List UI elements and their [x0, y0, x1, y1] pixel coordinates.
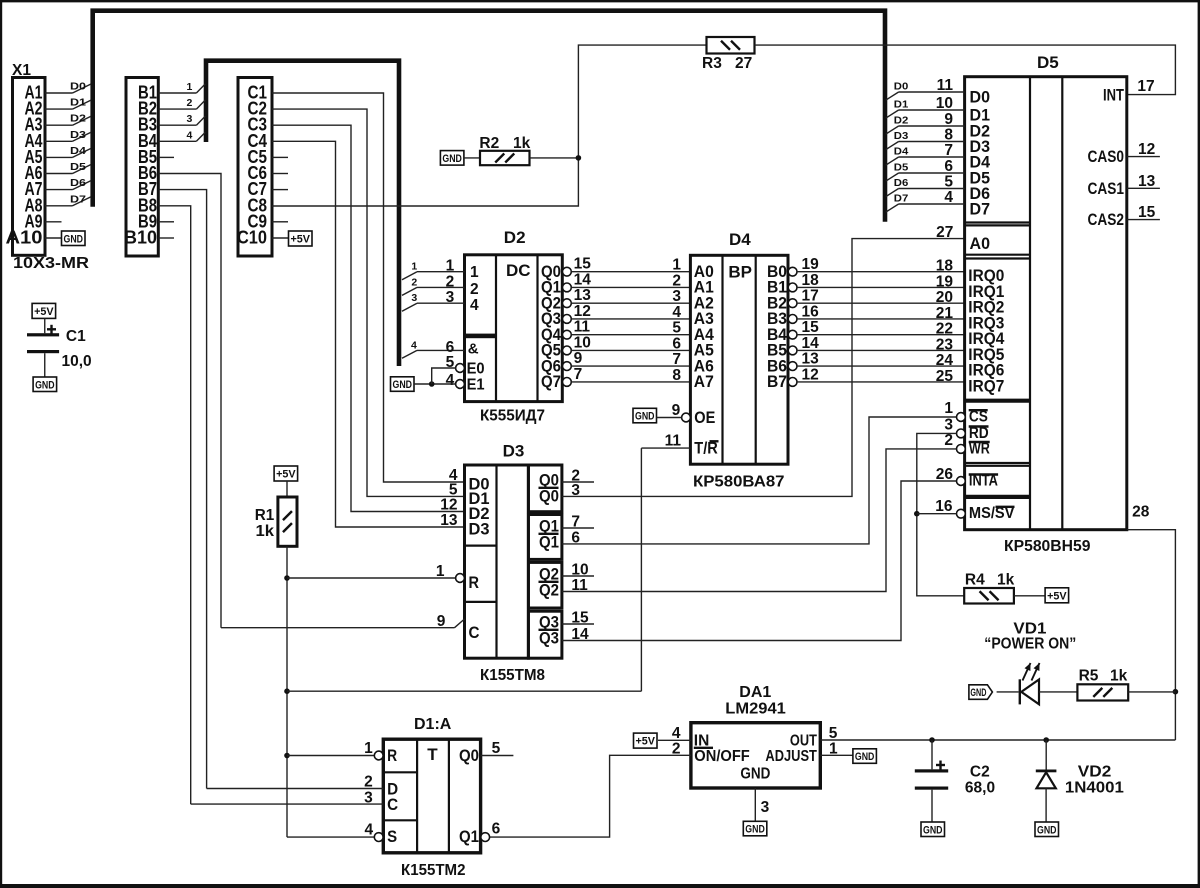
svg-text:INT: INT	[1103, 86, 1124, 104]
svg-text:13: 13	[802, 351, 820, 368]
svg-text:D3: D3	[894, 130, 909, 142]
svg-text:10,0: 10,0	[62, 353, 92, 370]
svg-text:22: 22	[936, 321, 953, 338]
svg-text:S: S	[387, 827, 397, 846]
svg-text:9: 9	[437, 613, 446, 630]
svg-text:+5V: +5V	[291, 234, 311, 246]
svg-text:8: 8	[672, 367, 681, 384]
svg-text:9: 9	[672, 402, 681, 419]
svg-text:DC: DC	[506, 261, 531, 280]
svg-text:D2: D2	[504, 228, 526, 247]
svg-text:D2: D2	[70, 113, 86, 125]
svg-text:C2: C2	[970, 764, 990, 781]
svg-text:1: 1	[470, 264, 479, 281]
svg-text:2: 2	[187, 97, 193, 109]
svg-text:17: 17	[802, 288, 819, 305]
svg-text:18: 18	[936, 258, 954, 275]
svg-text:R: R	[387, 746, 397, 765]
svg-text:C: C	[469, 623, 480, 642]
svg-text:D1: D1	[70, 97, 86, 109]
svg-text:T: T	[427, 745, 438, 764]
svg-text:23: 23	[936, 336, 954, 353]
svg-text:6: 6	[944, 158, 953, 175]
svg-text:CAS2: CAS2	[1088, 211, 1125, 229]
svg-text:“POWER ON”: “POWER ON”	[984, 636, 1076, 653]
svg-text:11: 11	[574, 319, 591, 336]
svg-text:BP: BP	[728, 263, 752, 282]
svg-text:Q1: Q1	[539, 533, 559, 552]
svg-text:4: 4	[672, 304, 681, 321]
svg-text:3: 3	[944, 416, 953, 433]
svg-text:LM2941: LM2941	[725, 701, 786, 718]
svg-text:12: 12	[802, 366, 819, 383]
svg-text:D4: D4	[70, 145, 86, 157]
svg-text:D6: D6	[70, 177, 86, 189]
svg-text:D7: D7	[70, 193, 86, 205]
svg-text:19: 19	[936, 273, 954, 290]
svg-text:D3: D3	[469, 520, 490, 539]
svg-text:Q0: Q0	[459, 746, 479, 765]
svg-text:E1: E1	[467, 377, 485, 394]
svg-text:D4: D4	[894, 146, 909, 158]
svg-text:GND: GND	[635, 411, 655, 423]
svg-text:14: 14	[574, 271, 592, 288]
svg-text:8: 8	[944, 127, 953, 144]
svg-text:4: 4	[411, 339, 417, 351]
svg-text:GND: GND	[740, 766, 770, 783]
svg-text:К155ТМ8: К155ТМ8	[480, 667, 545, 684]
svg-text:GND: GND	[64, 233, 84, 245]
svg-text:13: 13	[1138, 173, 1156, 190]
svg-text:20: 20	[936, 289, 953, 306]
svg-text:1: 1	[944, 400, 953, 417]
svg-text:25: 25	[936, 368, 954, 385]
svg-text:IRQ7: IRQ7	[968, 376, 1004, 395]
svg-text:КР580ВА87: КР580ВА87	[693, 474, 785, 491]
svg-text:К555ИД7: К555ИД7	[480, 408, 545, 425]
svg-text:C1: C1	[66, 328, 86, 345]
svg-text:GND: GND	[923, 824, 943, 836]
svg-text:2: 2	[411, 276, 417, 288]
svg-text:1: 1	[446, 258, 455, 275]
svg-text:27: 27	[936, 224, 953, 241]
svg-text:B10: B10	[124, 228, 157, 248]
svg-text:9: 9	[574, 350, 583, 367]
svg-text:D3: D3	[70, 129, 86, 141]
svg-text:1: 1	[436, 563, 445, 580]
svg-text:КР580ВН59: КР580ВН59	[1004, 538, 1091, 555]
svg-text:CAS0: CAS0	[1088, 148, 1125, 166]
svg-text:D0: D0	[970, 88, 991, 107]
svg-text:1k: 1k	[513, 135, 531, 152]
svg-text:&: &	[468, 341, 479, 358]
svg-text:D1:A: D1:A	[414, 716, 452, 733]
svg-text:4: 4	[944, 189, 953, 206]
svg-text:D6: D6	[894, 177, 909, 189]
svg-text:2: 2	[470, 281, 479, 298]
svg-text:Q3: Q3	[539, 629, 559, 648]
svg-text:VD2: VD2	[1078, 764, 1112, 781]
svg-text:1: 1	[364, 740, 373, 757]
svg-text:R: R	[469, 573, 480, 592]
svg-text:15: 15	[1138, 204, 1156, 221]
svg-text:68,0: 68,0	[965, 780, 995, 797]
svg-text:GND: GND	[970, 687, 986, 699]
svg-text:R5: R5	[1079, 668, 1099, 685]
svg-text:3: 3	[187, 113, 193, 125]
svg-text:6: 6	[672, 335, 681, 352]
svg-text:GND: GND	[855, 751, 875, 763]
svg-text:A0: A0	[970, 234, 991, 253]
svg-text:D0: D0	[894, 81, 909, 93]
svg-text:10: 10	[574, 334, 591, 351]
svg-text:4: 4	[470, 297, 479, 314]
svg-text:5: 5	[829, 725, 838, 742]
svg-text:3: 3	[761, 799, 770, 816]
svg-text:12: 12	[574, 303, 591, 320]
svg-text:OE: OE	[694, 409, 715, 427]
svg-text:D5: D5	[70, 161, 86, 173]
svg-text:R1: R1	[255, 507, 275, 524]
svg-text:27: 27	[735, 55, 752, 72]
svg-text:D1: D1	[894, 99, 909, 111]
svg-text:4: 4	[446, 372, 455, 389]
svg-text:14: 14	[802, 335, 820, 352]
svg-text:GND: GND	[35, 379, 55, 391]
svg-text:ADJUST: ADJUST	[765, 748, 817, 765]
svg-text:7: 7	[944, 142, 953, 159]
svg-text:R2: R2	[479, 135, 499, 152]
svg-text:Q0: Q0	[539, 487, 559, 506]
svg-text:+5V: +5V	[276, 469, 296, 481]
svg-text:E0: E0	[467, 361, 485, 378]
svg-text:GND: GND	[745, 824, 765, 836]
svg-text:3: 3	[672, 288, 681, 305]
svg-text:24: 24	[936, 352, 954, 369]
svg-text:11: 11	[665, 433, 682, 450]
svg-text:B7: B7	[767, 372, 787, 391]
svg-text:R3: R3	[702, 55, 722, 72]
svg-text:16: 16	[935, 498, 953, 515]
svg-text:2: 2	[672, 272, 681, 289]
svg-text:D3: D3	[503, 442, 525, 461]
svg-text:1: 1	[187, 81, 193, 93]
svg-text:4: 4	[364, 822, 373, 839]
svg-text:12: 12	[440, 497, 457, 514]
svg-text:4: 4	[187, 129, 193, 141]
svg-text:DA1: DA1	[739, 684, 771, 701]
svg-text:9: 9	[944, 111, 953, 128]
svg-text:A10: A10	[6, 228, 43, 248]
svg-text:D4: D4	[729, 230, 751, 249]
svg-text:3: 3	[411, 292, 417, 304]
svg-text:R4: R4	[965, 572, 985, 589]
svg-text:12: 12	[1138, 141, 1155, 158]
svg-text:28: 28	[1132, 504, 1150, 521]
svg-text:Q1: Q1	[459, 827, 479, 846]
svg-text:6: 6	[492, 821, 501, 838]
svg-text:17: 17	[1137, 78, 1154, 95]
svg-text:GND: GND	[393, 379, 413, 391]
svg-text:1N4001: 1N4001	[1065, 780, 1124, 797]
svg-text:7: 7	[574, 366, 583, 383]
svg-text:C: C	[387, 795, 398, 814]
svg-text:5: 5	[672, 320, 681, 337]
svg-text:15: 15	[802, 319, 820, 336]
svg-text:Q7: Q7	[541, 372, 561, 391]
svg-text:1k: 1k	[1110, 668, 1128, 685]
svg-text:GND: GND	[442, 153, 462, 165]
svg-text:2: 2	[446, 273, 455, 290]
svg-text:10: 10	[936, 95, 953, 112]
svg-text:D0: D0	[70, 81, 86, 93]
svg-text:5: 5	[492, 740, 501, 757]
svg-text:D5: D5	[1037, 53, 1059, 72]
svg-text:C10: C10	[237, 228, 267, 248]
svg-text:7: 7	[672, 351, 681, 368]
svg-text:D5: D5	[894, 162, 909, 174]
svg-text:1k: 1k	[256, 523, 275, 540]
svg-text:1: 1	[672, 257, 681, 274]
svg-text:3: 3	[446, 289, 455, 306]
svg-text:+5V: +5V	[34, 306, 54, 318]
svg-text:К155ТМ2: К155ТМ2	[401, 862, 466, 879]
svg-text:10X3-MR: 10X3-MR	[13, 255, 90, 272]
svg-text:A7: A7	[694, 372, 714, 391]
svg-text:1k: 1k	[997, 572, 1015, 589]
svg-text:21: 21	[936, 305, 954, 322]
svg-text:CAS1: CAS1	[1088, 180, 1125, 198]
svg-text:26: 26	[936, 466, 954, 483]
svg-text:13: 13	[574, 287, 592, 304]
svg-text:5: 5	[944, 174, 953, 191]
svg-text:OUT: OUT	[790, 733, 817, 750]
svg-text:1: 1	[411, 261, 417, 273]
svg-text:D7: D7	[970, 200, 991, 219]
svg-text:D7: D7	[894, 193, 909, 205]
svg-text:16: 16	[802, 303, 820, 320]
svg-text:18: 18	[802, 272, 820, 289]
svg-text:D2: D2	[894, 115, 909, 127]
svg-text:GND: GND	[1037, 824, 1057, 836]
svg-text:4: 4	[672, 725, 681, 742]
svg-text:+5V: +5V	[636, 736, 656, 748]
svg-text:2: 2	[944, 432, 953, 449]
svg-text:13: 13	[440, 512, 458, 529]
svg-text:Q2: Q2	[539, 581, 559, 600]
svg-text:19: 19	[802, 256, 820, 273]
svg-text:11: 11	[937, 77, 954, 94]
svg-text:+5V: +5V	[1047, 590, 1067, 602]
svg-text:15: 15	[574, 256, 592, 273]
svg-text:ON/OFF: ON/OFF	[694, 748, 750, 765]
